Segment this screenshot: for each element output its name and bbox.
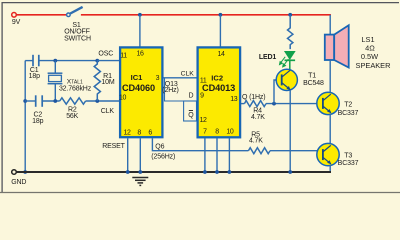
svg-text:7: 7 bbox=[203, 129, 207, 136]
svg-text:T3: T3 bbox=[344, 153, 352, 160]
svg-text:4.7K: 4.7K bbox=[251, 114, 265, 121]
resistor R3 above LED bbox=[288, 15, 293, 49]
wire IC1 reset pin12 stub bbox=[127, 138, 129, 172]
svg-text:12: 12 bbox=[123, 129, 131, 136]
frame border bbox=[2, 3, 399, 193]
svg-text:18p: 18p bbox=[32, 118, 43, 125]
transistor T3 BC337 bbox=[317, 143, 339, 165]
LED arrows bbox=[280, 57, 289, 67]
wire red switch to speaker corner bbox=[81, 14, 331, 16]
resistor R2 bbox=[60, 98, 86, 104]
wire OSC net bbox=[25, 60, 33, 62]
svg-text:CD4060: CD4060 bbox=[122, 83, 155, 93]
resistor R4 bbox=[244, 101, 266, 107]
wire speaker to T2 collector bbox=[329, 60, 331, 93]
LED1 bbox=[285, 51, 296, 59]
svg-text:9: 9 bbox=[200, 93, 204, 100]
svg-text:IC1: IC1 bbox=[131, 73, 144, 82]
svg-text:10: 10 bbox=[226, 129, 234, 136]
wire R2 to R1 bottom node bbox=[86, 100, 120, 102]
wire T2 emitter to T3 collector bbox=[329, 113, 331, 144]
svg-text:LED1: LED1 bbox=[259, 54, 277, 61]
transistor T1 BC548 bbox=[276, 69, 297, 90]
wire C2 to crystal bottom node bbox=[42, 100, 60, 102]
svg-text:0.5W: 0.5W bbox=[361, 52, 378, 61]
resistor R5 bbox=[248, 148, 270, 154]
wire T1 base riser bbox=[274, 80, 282, 104]
wire pin14 stub bbox=[219, 15, 221, 47]
svg-text:ON/OFF: ON/OFF bbox=[64, 29, 90, 36]
svg-text:11: 11 bbox=[120, 52, 127, 59]
wire CLK IC1 pin3 to IC2 pin11 bbox=[164, 77, 197, 79]
node crystal bottom bbox=[53, 99, 57, 103]
left rail wire bbox=[24, 61, 26, 172]
op IC2 CD4013 box bbox=[198, 47, 241, 137]
node rail C2 junction bbox=[23, 99, 27, 103]
svg-text:12: 12 bbox=[199, 117, 207, 124]
wire R4 to T2 base bbox=[266, 103, 323, 105]
wire T3 emitter to ground bus bbox=[329, 165, 331, 172]
svg-text:BC337: BC337 bbox=[338, 160, 359, 167]
svg-text:14: 14 bbox=[217, 51, 225, 58]
capacitor C1 bbox=[32, 55, 34, 67]
crystal XTAL1 bbox=[54, 61, 56, 74]
wire Q 1Hz from IC2 pin13 bbox=[241, 103, 245, 105]
wire C1 to crystal node bbox=[39, 60, 98, 62]
wire Q6 line from IC1 pin6 bbox=[152, 138, 248, 150]
svg-text:3: 3 bbox=[156, 75, 160, 82]
wire speaker drop bbox=[329, 15, 331, 35]
switch S1 bbox=[67, 13, 71, 17]
svg-text:6: 6 bbox=[148, 129, 152, 136]
svg-text:32.768kHz: 32.768kHz bbox=[59, 86, 92, 93]
node bus junctions bbox=[126, 170, 130, 174]
svg-text:(2Hz): (2Hz) bbox=[162, 87, 178, 94]
transistor T2 BC337 bbox=[317, 92, 339, 114]
wire R5 to T3 base bbox=[270, 150, 323, 152]
svg-text:Q6: Q6 bbox=[155, 144, 164, 151]
op IC1 CD4060 box bbox=[120, 47, 162, 137]
wire IC2 pin10 stub bbox=[228, 139, 230, 173]
svg-text:T2: T2 bbox=[344, 102, 352, 109]
svg-text:GND: GND bbox=[11, 179, 26, 186]
svg-text:8: 8 bbox=[215, 129, 219, 136]
wire OSC into IC1 pin11 bbox=[97, 60, 120, 62]
svg-text:RESET: RESET bbox=[102, 143, 125, 150]
wire IC2 pin8 stub bbox=[216, 139, 218, 173]
svg-text:XTAL1: XTAL1 bbox=[67, 79, 83, 86]
svg-text:BC548: BC548 bbox=[303, 80, 324, 87]
node crystal top bbox=[53, 59, 57, 63]
node IC1 pin16 junction bbox=[138, 13, 142, 17]
GND terminal bbox=[12, 170, 17, 175]
ground bus bbox=[16, 171, 331, 173]
svg-text:BC337: BC337 bbox=[338, 110, 359, 117]
node R1 top bbox=[95, 59, 99, 63]
wire IC2 pin7 stub bbox=[204, 139, 206, 173]
svg-text:8: 8 bbox=[137, 129, 141, 136]
wire red 9V to switch bbox=[16, 14, 66, 16]
wire CLK net from rail bbox=[25, 100, 36, 102]
svg-text:IC2: IC2 bbox=[211, 74, 223, 83]
svg-text:OSC: OSC bbox=[98, 50, 113, 57]
resistor R1 bbox=[94, 61, 100, 101]
svg-text:9V: 9V bbox=[12, 19, 21, 26]
svg-text:16: 16 bbox=[136, 51, 144, 58]
ground symbol bbox=[132, 178, 148, 186]
svg-text:(256Hz): (256Hz) bbox=[151, 154, 175, 161]
svg-text:10M: 10M bbox=[101, 79, 114, 86]
svg-text:CD4013: CD4013 bbox=[202, 83, 235, 93]
node Qbar feedback box bbox=[184, 101, 197, 121]
svg-text:13: 13 bbox=[230, 96, 238, 103]
wire T1 emitter down to ground bbox=[289, 90, 291, 172]
9V terminal bbox=[12, 13, 17, 18]
node Q13 annotation box bbox=[165, 78, 197, 101]
capacitor C2 bbox=[35, 95, 37, 107]
svg-text:4.7K: 4.7K bbox=[249, 138, 263, 145]
node rail gnd junction bbox=[23, 170, 27, 174]
svg-text:CLK: CLK bbox=[181, 71, 195, 78]
svg-text:18p: 18p bbox=[29, 73, 40, 80]
svg-text:56K: 56K bbox=[66, 113, 78, 120]
svg-text:10: 10 bbox=[119, 95, 127, 102]
wire pin16 stub bbox=[139, 15, 141, 47]
node R4 T1 base junction bbox=[272, 102, 276, 106]
svg-text:Q: Q bbox=[188, 112, 194, 119]
svg-text:SPEAKER: SPEAKER bbox=[356, 61, 391, 70]
svg-text:SWITCH: SWITCH bbox=[64, 36, 91, 43]
svg-text:D: D bbox=[188, 93, 193, 100]
node IC2 pin14 junction bbox=[219, 13, 223, 17]
node R1 bottom bbox=[95, 99, 99, 103]
speaker LS1 bbox=[325, 35, 334, 60]
node LED resistor junction bbox=[288, 13, 292, 17]
wire IC1 pin8 stub bbox=[139, 138, 141, 172]
svg-text:T1: T1 bbox=[308, 73, 316, 80]
svg-text:CLK: CLK bbox=[101, 108, 115, 115]
